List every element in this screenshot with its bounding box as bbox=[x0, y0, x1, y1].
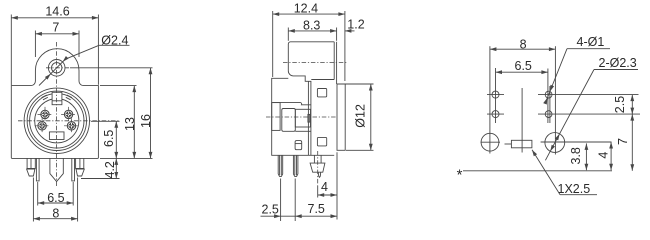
shield notch upper-right bbox=[67, 95, 72, 98]
mounting hole inner circle bbox=[52, 63, 62, 73]
side view rear housing right edge bbox=[333, 42, 335, 80]
connector face shield ring circle bbox=[27, 91, 86, 150]
svg-text:6.5: 6.5 bbox=[515, 59, 532, 73]
svg-text:8.3: 8.3 bbox=[303, 19, 320, 33]
front view vertical centerline bbox=[56, 42, 58, 187]
dimension 8 bottom bbox=[33, 178, 77, 222]
dimension 6.5 bottom bbox=[38, 182, 73, 206]
svg-text:2.5: 2.5 bbox=[613, 96, 627, 113]
svg-text:14.6: 14.6 bbox=[45, 4, 69, 18]
svg-text:7.5: 7.5 bbox=[308, 202, 325, 216]
side view rear housing inner right edge bbox=[336, 42, 338, 84]
extension line leg bottom right bbox=[81, 178, 120, 180]
side view barrel square hole upper bbox=[317, 89, 326, 97]
footprint small hole C bbox=[545, 91, 552, 98]
dimension 8 footprint bbox=[490, 37, 556, 51]
socket pin 4 bbox=[61, 107, 76, 122]
svg-text:7: 7 bbox=[616, 138, 630, 145]
dimension 2.5 side view bbox=[261, 179, 338, 222]
side view bracket pad bbox=[282, 109, 296, 132]
footprint row1 extension right bbox=[538, 94, 639, 96]
dimension 13 bbox=[123, 86, 137, 159]
footprint slot 1x2.5 bbox=[511, 140, 532, 148]
side view pcb leg 1 bbox=[278, 155, 283, 176]
socket pin 2 bbox=[64, 118, 79, 133]
connector face outer shield circle bbox=[24, 88, 89, 153]
extension line body bottom right bbox=[100, 157, 153, 159]
mounting hole horizontal centerline bbox=[46, 67, 70, 69]
extension line circle center right bbox=[91, 120, 120, 122]
side view main centerline bbox=[266, 116, 337, 118]
svg-text:3.8: 3.8 bbox=[569, 147, 583, 164]
side view bracket step bbox=[295, 109, 310, 127]
label 1x2.5 with leader bbox=[532, 150, 597, 196]
footprint center line bbox=[521, 88, 523, 153]
dimension 14.6 bbox=[11, 4, 98, 85]
shield notch upper-left bbox=[42, 95, 47, 98]
dimension 4 side view bbox=[318, 180, 337, 198]
side view main body outline bbox=[272, 78, 335, 155]
footprint small hole D bbox=[545, 111, 552, 118]
svg-text:8: 8 bbox=[52, 206, 59, 220]
dimension 8.3 bbox=[288, 19, 336, 41]
dimension 16 bbox=[139, 68, 153, 159]
dimension 2.5 footprint bbox=[613, 95, 634, 115]
side view center pin centerline bbox=[317, 151, 319, 186]
dimension 4 footprint bbox=[597, 142, 614, 170]
svg-text:4: 4 bbox=[321, 180, 328, 194]
side view front body inner edge bbox=[307, 81, 309, 155]
footprint row1 ticks left bbox=[487, 94, 504, 96]
footprint big hole left axis bbox=[489, 46, 491, 153]
center ground post bbox=[50, 158, 63, 181]
side view upper centerline bbox=[283, 61, 348, 63]
footprint big hole left bbox=[481, 133, 499, 151]
pcb edge line bbox=[463, 170, 612, 172]
front view body flange outline bbox=[11, 49, 98, 159]
svg-text:2-Ø2.3: 2-Ø2.3 bbox=[599, 56, 637, 70]
svg-text:13: 13 bbox=[123, 117, 137, 131]
label 2-dia2.3 with leader bbox=[545, 56, 638, 161]
svg-text:*: * bbox=[457, 167, 463, 184]
svg-text:1X2.5: 1X2.5 bbox=[558, 182, 591, 196]
footprint small hole A bbox=[492, 91, 499, 98]
footprint hole column right axis bbox=[549, 86, 551, 123]
dimension 7 footprint bbox=[616, 114, 634, 171]
mounting hole center extension line bbox=[70, 67, 153, 69]
footprint big hole right axis bbox=[554, 46, 556, 154]
side view bracket nub bbox=[308, 114, 310, 122]
side view mounting bracket bbox=[272, 103, 280, 131]
footprint big hole right bbox=[545, 133, 565, 153]
extension line body top right bbox=[100, 85, 137, 87]
svg-text:4-Ø1: 4-Ø1 bbox=[577, 35, 605, 49]
svg-text:4: 4 bbox=[597, 152, 611, 159]
footprint small hole B bbox=[492, 111, 499, 118]
side view front rim disc bbox=[337, 84, 345, 150]
connector face insert circle bbox=[30, 94, 84, 148]
side view small latch hole bbox=[295, 141, 302, 150]
socket pin 3 bbox=[38, 107, 53, 122]
side view barrel square hole lower bbox=[317, 137, 326, 146]
front view circle horizontal centerline bbox=[18, 120, 120, 122]
footprint row2 ticks left bbox=[487, 113, 504, 115]
label dia 2.4 with leader bbox=[39, 33, 130, 85]
side view front body edge bbox=[310, 81, 312, 155]
dimension 6.5 footprint bbox=[496, 59, 548, 74]
dimension 7 bbox=[35, 21, 79, 57]
footprint slot axis left bbox=[505, 143, 512, 145]
dimension 3.8 footprint bbox=[569, 143, 588, 170]
svg-text:6.5: 6.5 bbox=[102, 130, 116, 147]
dimension 7.5 side view bbox=[308, 152, 337, 219]
mounting hole outer circle bbox=[48, 60, 65, 77]
svg-text:1.2: 1.2 bbox=[347, 17, 364, 31]
svg-text:16: 16 bbox=[139, 114, 153, 128]
dimension 12.4 bbox=[273, 2, 345, 81]
side view bracket bottom line bbox=[295, 130, 310, 132]
svg-text:2.5: 2.5 bbox=[262, 202, 279, 216]
side view housing bottom over barrel bbox=[311, 79, 334, 81]
dimension dia 12 bbox=[337, 84, 374, 150]
side view rear housing outline bbox=[288, 42, 334, 82]
left shield leg bbox=[27, 158, 39, 181]
footprint hole column right line bbox=[547, 69, 549, 124]
top key slot bbox=[52, 92, 62, 104]
svg-text:8: 8 bbox=[520, 37, 527, 51]
bottom key slot bbox=[49, 132, 64, 140]
connector face socket circle bbox=[35, 99, 79, 143]
footprint hole column left line bbox=[495, 68, 497, 123]
side view center pin bbox=[310, 155, 325, 177]
socket pin 1 bbox=[35, 118, 50, 133]
svg-text:12.4: 12.4 bbox=[294, 2, 318, 16]
side view bracket top ledge bbox=[273, 103, 311, 105]
svg-text:4.2: 4.2 bbox=[103, 161, 117, 178]
footprint left hole crosshair bbox=[481, 141, 501, 143]
dimension 6.5 vertical bbox=[102, 121, 118, 158]
footprint row2 extension right bbox=[538, 113, 640, 115]
dimension 4.2 vertical bbox=[103, 158, 118, 178]
svg-text:7: 7 bbox=[52, 21, 59, 35]
right shield leg bbox=[72, 158, 85, 181]
footprint slot axis right bbox=[541, 141, 612, 143]
label 4-dia1 with leader bbox=[543, 35, 610, 105]
dimension 1.2 bbox=[345, 17, 365, 33]
side view pcb leg 2 bbox=[293, 155, 298, 176]
svg-text:Ø12: Ø12 bbox=[353, 104, 367, 128]
svg-text:6.5: 6.5 bbox=[47, 191, 64, 205]
